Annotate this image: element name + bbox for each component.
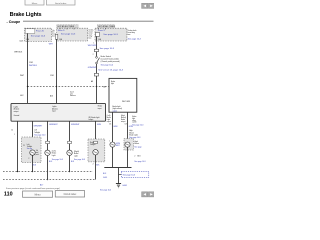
svg-text:See page 10-3: See page 10-3	[103, 34, 118, 36]
fuse box F3 (under-dash fuse/relay box)	[95, 28, 127, 41]
fuse box F3 side label	[128, 29, 137, 36]
wire to left taillight (x32)	[32, 121, 34, 150]
svg-text:See page: See page	[134, 147, 141, 149]
U1 output label bottom right	[89, 116, 100, 121]
wire B vertical from F2	[56, 39, 58, 103]
top toolbar button Menu	[25, 0, 44, 5]
dashed continuation wire 1	[3, 171, 93, 173]
junction dot wire x47 on line1	[47, 171, 48, 172]
svg-text:C6: C6	[109, 123, 111, 125]
bulb L1 label	[36, 150, 39, 156]
svg-text:2: 2	[93, 54, 94, 56]
junction dot node A	[27, 86, 28, 87]
svg-text:Brake: Brake	[111, 81, 115, 83]
svg-text:WHT: WHT	[116, 145, 120, 147]
footer nav button next	[148, 192, 154, 197]
footer button Menu	[23, 191, 53, 197]
fuse F2 element	[55, 34, 58, 39]
bulb H1 (right brake)	[110, 142, 115, 147]
svg-text:See page 10-3: See page 10-3	[52, 159, 63, 161]
bulb H1 ground drop	[112, 147, 114, 167]
U1 input label left	[14, 105, 20, 112]
main control box U1 (under-dash fuse/relay box)	[11, 103, 106, 121]
svg-text:output: output	[89, 118, 94, 121]
bulb L3 (right brake light)	[67, 150, 72, 155]
svg-text:GRN: GRN	[113, 126, 118, 128]
bulb L4 (right taillight)	[93, 150, 98, 155]
wire U2 to bulb H1	[112, 112, 114, 142]
dashed continuation wire 2	[3, 179, 96, 181]
svg-text:C561: C561	[50, 75, 54, 77]
bulb L3 label	[74, 150, 80, 157]
connector label block between wires B and C	[70, 91, 76, 97]
wire C lower segment	[96, 64, 98, 104]
bulb H2 side label	[134, 141, 139, 145]
wire x17 junction on dashed line	[17, 171, 18, 172]
ground wire BLK label	[103, 173, 107, 179]
bulb L3 junction dot	[69, 171, 70, 172]
footer nav button prev	[142, 192, 148, 197]
section rule	[23, 20, 154, 22]
svg-text:WHT GRN: WHT GRN	[122, 101, 131, 103]
wire C connector square	[94, 73, 98, 76]
svg-text:See page 10-3: See page 10-3	[134, 161, 145, 163]
svg-text:See page 10-4: See page 10-4	[101, 64, 113, 66]
svg-text:1: 1	[109, 140, 110, 142]
svg-text:See page 10-3: See page 10-3	[132, 124, 143, 126]
svg-text:Fuse 9: Fuse 9	[58, 30, 65, 32]
right taillight assembly dashed box	[88, 139, 105, 162]
svg-text:GRN/WHT: GRN/WHT	[34, 125, 43, 127]
svg-text:GRN/WHT: GRN/WHT	[88, 67, 97, 69]
top-right nav button prev	[142, 3, 148, 8]
svg-text:See page 10-3: See page 10-3	[100, 48, 115, 50]
wire C vertical from F3 (to brake switch)	[96, 36, 98, 56]
svg-text:Light: Light	[52, 154, 56, 157]
svg-text:GRN/WHT: GRN/WHT	[71, 124, 80, 126]
svg-text:Menu: Menu	[35, 194, 41, 196]
svg-text:A17: A17	[40, 184, 43, 187]
connector on wire x69	[68, 141, 72, 143]
svg-text:input: input	[98, 107, 102, 110]
ground drop wire	[118, 168, 120, 184]
svg-text:Brake: Brake	[132, 116, 136, 118]
svg-text:2: 2	[28, 158, 29, 160]
bulb L2 ground wire	[47, 156, 49, 180]
bulb H2 (high mount brake light)	[125, 142, 130, 147]
svg-text:2: 2	[134, 156, 135, 158]
ground symbol G401	[116, 184, 121, 188]
right taillight label	[90, 141, 96, 146]
svg-text:WHT/BLK: WHT/BLK	[14, 52, 23, 54]
svg-text:See page 10-5: See page 10-5	[31, 35, 46, 37]
svg-text:Brake: Brake	[107, 117, 111, 119]
high mount label right	[129, 130, 138, 136]
svg-text:110: 110	[4, 191, 13, 197]
svg-text:A16: A16	[50, 95, 53, 98]
bulb L2 label	[52, 149, 56, 156]
wire A vertical from F1	[27, 33, 29, 103]
hot-at-all-times strip over fuse box F3	[97, 25, 115, 29]
svg-text:G401: G401	[103, 177, 107, 179]
svg-text:HOT AT ALL TIMES: HOT AT ALL TIMES	[98, 25, 115, 28]
hot-at-all-times strip over fuse box F2	[57, 25, 78, 29]
bulb H2 ground drop	[127, 147, 129, 167]
left taillight name label	[34, 129, 40, 134]
svg-text:box: box	[52, 36, 55, 38]
bulb L1 junction dot	[32, 171, 33, 172]
wire from U1 to page link (x17)	[17, 121, 19, 171]
bulb L2 (left brake light)	[45, 150, 50, 155]
svg-text:Menu: Menu	[32, 3, 38, 5]
brake switch S1	[96, 56, 100, 64]
svg-text:Light: Light	[74, 154, 78, 157]
bulb L1 ground wire	[32, 155, 34, 171]
svg-text:Ground: Ground	[14, 114, 20, 117]
svg-text:input: input	[52, 110, 56, 113]
left taillight inner label	[27, 143, 33, 148]
svg-text:Brake: Brake	[121, 119, 125, 121]
svg-text:HOT AT ALL TIMES: HOT AT ALL TIMES	[58, 25, 75, 28]
svg-text:See page 10-3: See page 10-3	[128, 39, 142, 41]
left taillight assembly dashed box	[22, 137, 42, 163]
svg-text:See pg: See pg	[27, 148, 32, 150]
svg-text:box: box	[89, 38, 92, 40]
svg-text:See page 10-3: See page 10-3	[123, 175, 135, 177]
connector on wire x95	[94, 141, 98, 143]
brake switch label	[101, 55, 120, 63]
U2 name label below-right	[121, 115, 126, 123]
svg-text:harness: harness	[70, 95, 76, 97]
fuse box F1 (under-hood fuse/relay box)	[25, 28, 52, 41]
svg-text:box: box	[128, 34, 131, 36]
svg-text:A8: A8	[91, 80, 93, 83]
U2 bottom text	[112, 105, 122, 110]
ground bus	[104, 167, 131, 169]
svg-text:Dash: Dash	[70, 91, 74, 93]
svg-text:See page 10-3: See page 10-3	[34, 135, 45, 137]
fuse F3 element	[96, 32, 100, 36]
svg-text:G401: G401	[122, 185, 127, 187]
U1 input label mid	[52, 105, 58, 112]
svg-text:Brake Lights: Brake Lights	[10, 12, 42, 18]
svg-text:Mount: Mount	[134, 142, 139, 145]
U1 input label right	[98, 105, 102, 110]
blue note inside right box	[112, 87, 117, 94]
bulb L1 (left taillight)	[30, 150, 35, 155]
high mount dashed box	[124, 139, 133, 150]
dashed interconnect wire at y=86	[28, 86, 110, 88]
svg-text:- Coupe: - Coupe	[7, 20, 21, 24]
svg-text:C8: C8	[125, 123, 127, 125]
svg-text:wire: wire	[70, 93, 73, 95]
right column text block	[132, 116, 137, 124]
svg-text:C562: C562	[29, 62, 33, 64]
svg-text:(Closed: pedal pressed): (Closed: pedal pressed)	[101, 61, 120, 63]
svg-text:Serial index: Serial index	[55, 2, 67, 5]
fuse F3 pins	[98, 28, 100, 29]
wire to right brake light (x69.5)	[69, 121, 71, 150]
svg-text:C425: C425	[19, 41, 23, 43]
svg-text:See page 10-3: See page 10-3	[100, 190, 111, 192]
fuse F2 pins	[59, 28, 61, 29]
svg-text:Brake Light: Brake Light	[129, 134, 138, 137]
svg-text:See page 10-3: See page 10-3	[74, 159, 85, 161]
svg-text:WHT/BLK: WHT/BLK	[29, 65, 38, 67]
fuse box F2 (under-hood fuse/relay box)	[55, 28, 87, 41]
top toolbar button Section index	[47, 0, 76, 5]
svg-text:and: and	[36, 152, 39, 154]
svg-text:See page 10-3: See page 10-3	[61, 34, 76, 36]
wire to left brake light (x47.6)	[47, 121, 49, 150]
junction dot node C	[96, 86, 97, 87]
svg-text:output: output	[112, 110, 117, 113]
connector on wire x47	[46, 141, 50, 143]
svg-text:Fuse 9: Fuse 9	[98, 30, 105, 32]
svg-text:GRN: GRN	[97, 124, 102, 126]
svg-text:Fuse 20: Fuse 20	[36, 31, 45, 33]
fuse box F2 side label	[89, 29, 95, 40]
wire U2 to bulb H2	[127, 112, 129, 141]
svg-text:See Circuit 13, page 10-3: See Circuit 13, page 10-3	[98, 69, 124, 72]
svg-text:GRN: GRN	[129, 126, 134, 128]
svg-text:From previous page (circuit co: From previous page (circuit continued fr…	[6, 187, 60, 190]
bulb L3 ground wire	[69, 156, 71, 172]
footer button Circuit index	[55, 191, 84, 197]
svg-text:21: 21	[23, 145, 25, 147]
bulb H1 label	[116, 143, 121, 147]
U2 inner top label	[111, 81, 115, 85]
bulb H2 lower pin text	[134, 156, 141, 158]
svg-text:GRN/WHT: GRN/WHT	[49, 124, 58, 126]
svg-text:Circuit index: Circuit index	[64, 193, 77, 196]
wire to right taillight (x95.5)	[95, 121, 97, 150]
svg-text:(High: (High	[121, 115, 125, 117]
wire C connector	[94, 49, 98, 51]
bulb L4 ground wire	[95, 155, 97, 180]
multiplex control box U2	[109, 78, 137, 112]
U2 name label below-left	[107, 114, 112, 123]
ground note dashed blue box	[119, 171, 149, 177]
svg-text:A12: A12	[20, 94, 23, 97]
junction dot node B	[56, 86, 57, 87]
svg-text:2: 2	[93, 164, 94, 166]
svg-text:Taillight: Taillight	[34, 131, 40, 134]
svg-text:12: 12	[11, 129, 13, 131]
svg-text:WHT/GRN: WHT/GRN	[88, 45, 97, 47]
svg-text:output: output	[14, 110, 19, 113]
svg-text:relay: relay	[132, 120, 136, 122]
top-right nav button next	[148, 3, 154, 8]
fuse box F1 side label	[52, 30, 56, 38]
bulb L2 junction dot	[47, 179, 48, 180]
